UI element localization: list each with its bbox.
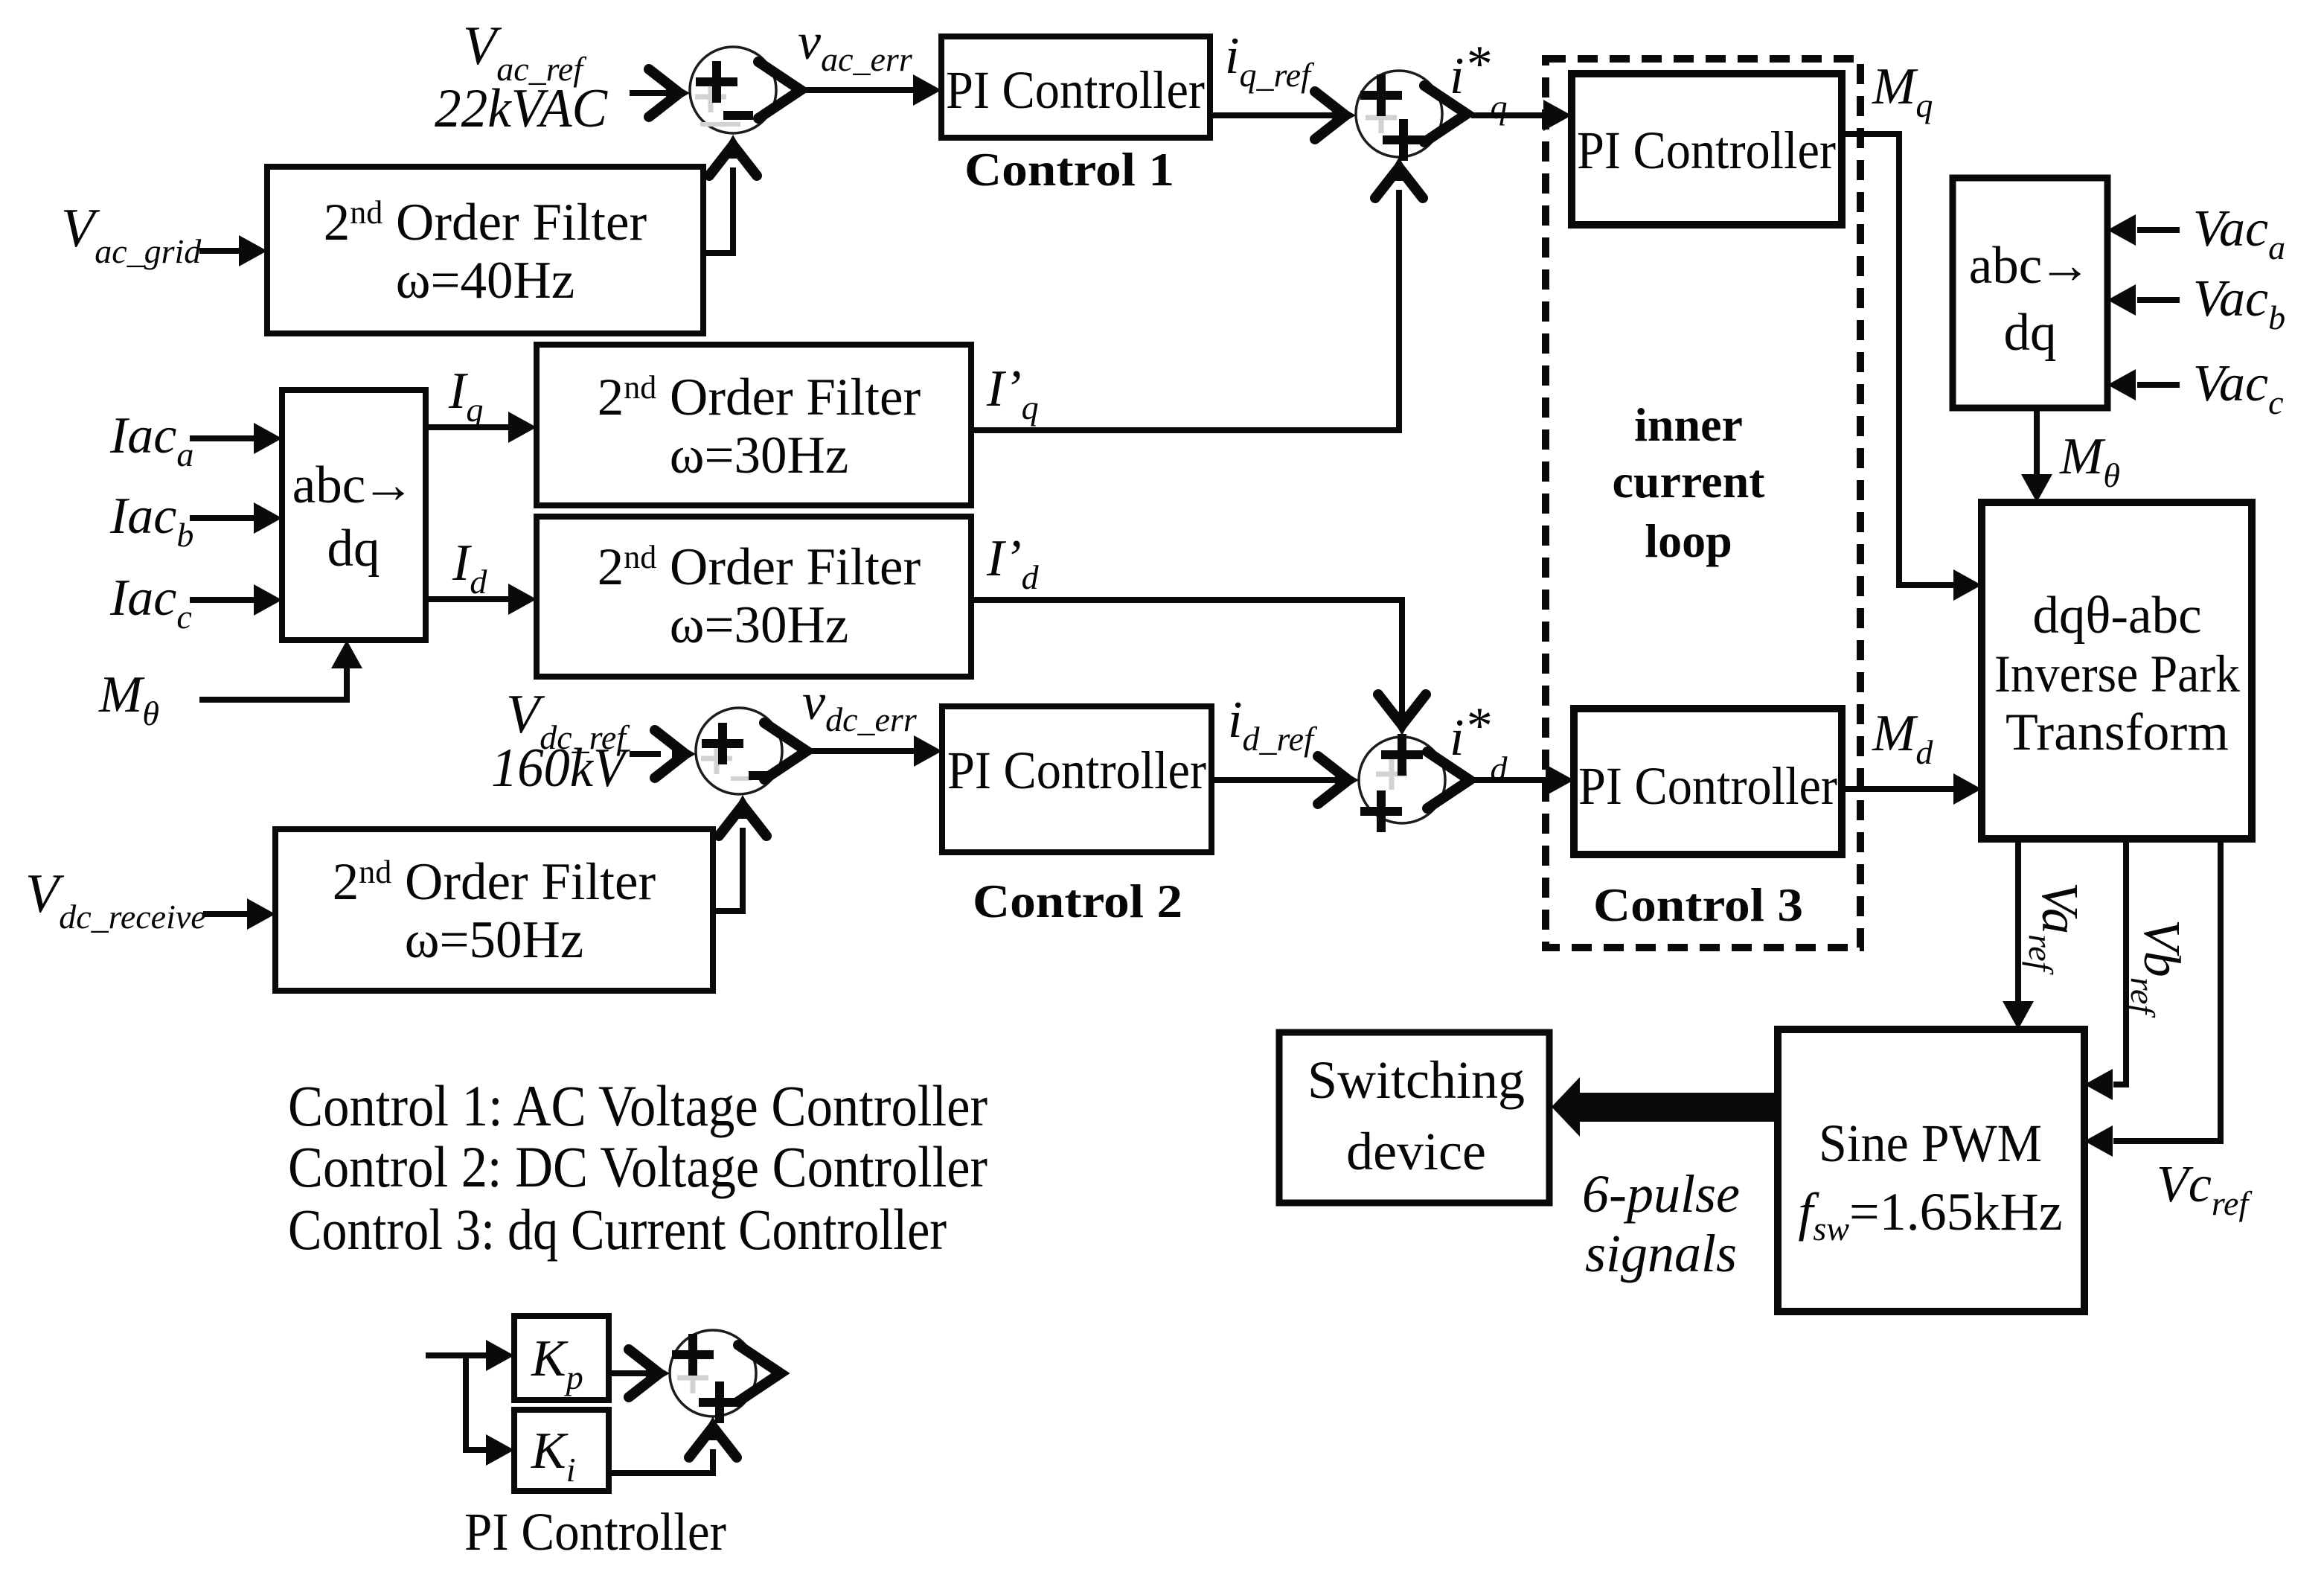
summing junction S3 (Vdc error): [696, 708, 782, 794]
dashed box: inner current loop: [1546, 59, 1860, 948]
wire: Vac_grid input to 40Hz filter: [199, 235, 267, 266]
summing junction S1 (Vac error): [690, 47, 776, 133]
summing junction S5 (PI detail adder): [670, 1330, 756, 1423]
wire: S2 output into inner loop PI (i*_q): [1424, 86, 1572, 142]
svg-text:Control 1: Control 1: [964, 143, 1174, 196]
block: PI Controller (inner loop q): [1572, 74, 1842, 225]
wire: Vc_ref into Sine PWM right side: [2084, 839, 2221, 1157]
svg-text:Control 3: Control 3: [1593, 878, 1803, 931]
block: 2nd Order Filter w=30Hz (q axis): [537, 345, 971, 505]
svg-text:dq: dq: [327, 520, 380, 578]
block: PI Controller (Control 1): [941, 36, 1210, 138]
wire: 40Hz filter output up into S1 minus input: [703, 135, 757, 253]
wire: M_theta from abc-dq down to Inverse Park: [2021, 408, 2052, 502]
wire: I'_q filtered up into S2 plus input: [971, 157, 1423, 430]
svg-text:current: current: [1613, 455, 1766, 508]
svg-text:PI Controller: PI Controller: [464, 1502, 726, 1562]
wire: S1 output to PI Controller 1 (v_ac_err): [758, 62, 941, 118]
wire: I'_d filtered down into S4 plus input: [971, 600, 1426, 735]
svg-text:6-pulse: 6-pulse: [1582, 1164, 1740, 1224]
block: PI Controller (Control 2): [942, 706, 1211, 852]
wire: I_d from abc-dq to 30Hz filter: [426, 584, 537, 615]
svg-text:loop: loop: [1645, 514, 1732, 567]
block: PI Controller (inner loop d / Control 3): [1574, 709, 1842, 855]
wire: Vdc_ref input arrow into S3: [630, 730, 696, 778]
svg-text:Sine PWM: Sine PWM: [1819, 1114, 2042, 1173]
svg-text:dqθ-abc: dqθ-abc: [2032, 587, 2201, 645]
wire: Ki output up into S5: [609, 1416, 737, 1473]
svg-text:abc→: abc→: [292, 456, 415, 514]
wire: Vb_ref into Sine PWM right side: [2084, 839, 2126, 1100]
wire: 50Hz filter output up into S3 minus input: [713, 795, 766, 911]
wire: PI2 output to S4 (i_d_ref): [1211, 756, 1359, 804]
wire: Vdc_receive input to 50Hz filter: [203, 898, 275, 930]
wire: PI detail input with branch to Kp and Ki: [426, 1340, 514, 1466]
wire: Vac_c input: [2107, 369, 2180, 400]
wire: Kp output into S5: [609, 1349, 670, 1397]
svg-text:ω=40Hz: ω=40Hz: [396, 252, 575, 310]
wire: inner PI d output M_d to Inverse Park: [1842, 773, 1982, 805]
svg-text:abc→: abc→: [1969, 237, 2092, 295]
svg-text:Control 2: DC Voltage Controll: Control 2: DC Voltage Controller: [288, 1134, 987, 1199]
svg-text:ω=30Hz: ω=30Hz: [670, 596, 849, 654]
block: 2nd Order Filter w=30Hz (d axis): [537, 517, 971, 677]
wire: Vac_ref input arrow into S1: [630, 69, 690, 117]
summing junction S4 (id ref + compensation): [1359, 734, 1445, 832]
wire: Va_ref down into Sine PWM: [2003, 839, 2034, 1029]
wire: Iac_c input: [190, 584, 282, 616]
svg-text:Control 3: dq Current Controll: Control 3: dq Current Controller: [288, 1197, 947, 1262]
block: dq-theta-abc Inverse Park Transform: [1982, 502, 2252, 839]
wire: I_q from abc-dq to 30Hz filter: [426, 412, 537, 443]
svg-text:device: device: [1346, 1122, 1486, 1181]
wire: inner PI q output M_q to Inverse Park: [1842, 134, 1982, 601]
svg-text:Control 1: AC Voltage Controll: Control 1: AC Voltage Controller: [288, 1073, 987, 1138]
svg-text:PI Controller: PI Controller: [946, 60, 1205, 120]
block: 2nd Order Filter w=40Hz: [267, 167, 703, 333]
wire: S5 output chevron: [738, 1345, 781, 1402]
summing junction S2 (iq ref + compensation): [1356, 71, 1442, 161]
block: Ki gain: [514, 1410, 609, 1491]
svg-text:ω=50Hz: ω=50Hz: [405, 911, 584, 969]
svg-text:PI Controller: PI Controller: [947, 741, 1206, 800]
svg-text:ω=30Hz: ω=30Hz: [670, 427, 849, 485]
block: Switching device: [1279, 1032, 1549, 1203]
svg-text:Transform: Transform: [2006, 703, 2229, 761]
svg-text:dq: dq: [2004, 304, 2057, 362]
wire: S3 output to PI Controller 2 (v_dc_err): [764, 723, 942, 779]
svg-text:160kV: 160kV: [491, 738, 630, 799]
svg-text:Switching: Switching: [1307, 1050, 1525, 1110]
svg-text:Inverse Park: Inverse Park: [1994, 645, 2240, 703]
svg-text:signals: signals: [1585, 1224, 1737, 1283]
label: 6-pulse signals: [1582, 1164, 1740, 1283]
wire: Vac_b input: [2107, 284, 2180, 316]
svg-text:inner: inner: [1634, 398, 1743, 451]
wire: Vac_a input: [2107, 214, 2180, 246]
block: Kp gain: [514, 1316, 609, 1400]
wire: Iac_b input: [190, 502, 282, 534]
block: Sine PWM: [1778, 1029, 2084, 1312]
block: 2nd Order Filter w=50Hz: [275, 829, 713, 991]
svg-text:PI Controller: PI Controller: [1577, 121, 1836, 180]
wire: Iac_a input: [190, 423, 282, 454]
wire: M_theta input to abc-dq: [199, 640, 362, 700]
svg-text:22kVAC: 22kVAC: [435, 78, 609, 139]
wire: S4 output into inner loop PI (i*_d): [1427, 752, 1574, 808]
wire: PI1 output to S2 (i_q_ref): [1210, 92, 1356, 139]
svg-text:Control 2: Control 2: [973, 875, 1182, 927]
block: abc to dq transform (currents): [282, 390, 426, 640]
label: inner current loop: [1613, 398, 1766, 567]
wire: 6-pulse signals thick arrow from Sine PWM to Switching device: [1552, 1077, 1778, 1137]
block: abc to dq transform (voltages): [1953, 178, 2107, 408]
svg-text:PI Controller: PI Controller: [1578, 756, 1837, 816]
